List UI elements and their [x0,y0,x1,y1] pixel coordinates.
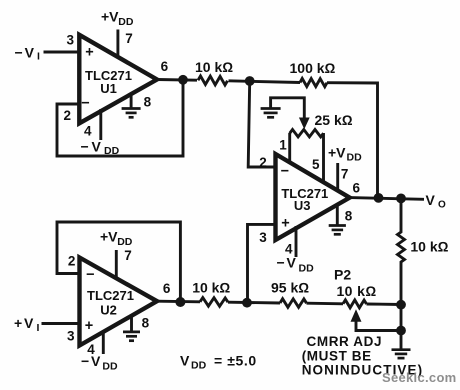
wire R4 to node B [228,301,280,305]
text VDD = +-5.0 [180,353,257,372]
svg-text:−V: −V [81,353,102,369]
svg-text:3: 3 [67,329,75,344]
svg-text:1: 1 [279,138,287,153]
wire U1 pin 4 [99,109,102,140]
-VDD label U2 [81,353,118,373]
svg-text:6: 6 [352,181,360,196]
potentiometer P2 10 k-ohm [334,267,377,308]
wire pot right end to U3 pin 5 [322,133,325,184]
wire pot left end to U3 pin 1 [288,133,291,163]
svg-text:I: I [37,51,40,63]
text CMRR ADJ note [302,334,424,378]
svg-text:−: − [81,96,89,112]
svg-text:+V: +V [14,315,35,331]
ground U2 pin 8 [123,316,140,341]
svg-text:DD: DD [347,152,363,164]
node wiper junction [396,326,406,336]
svg-text:O: O [438,200,446,211]
wire +VI to U2 pin 3 [42,322,81,325]
svg-text:V: V [92,139,102,155]
input -VI label [15,45,41,63]
svg-text:10 kΩ: 10 kΩ [195,59,233,75]
potentiometer 25 k-ohm [290,112,353,137]
svg-text:−: − [86,267,94,283]
svg-text:10 kΩ: 10 kΩ [337,283,377,299]
resistor 10 k-ohm R3 vertical [398,198,449,304]
svg-text:−V: −V [277,255,298,271]
wire U3 pin 7 [336,163,339,192]
svg-text:U1: U1 [100,81,117,96]
svg-text:DD: DD [118,16,134,28]
resistor 95 k-ohm R5 [271,280,309,308]
svg-text:3: 3 [66,33,74,48]
svg-text:7: 7 [125,31,133,46]
wire P2 wiper down and right [356,320,401,331]
wire U2 pin 4 [102,332,105,354]
svg-text:Seekic.com: Seekic.com [382,370,457,385]
node U1 output junction [178,75,188,85]
svg-text:DD: DD [191,360,207,372]
svg-text:CMRR ADJ: CMRR ADJ [307,334,383,349]
resistor 10 k-ohm R1 [195,59,233,85]
wire U1 pin 7 [116,30,119,59]
svg-text:2: 2 [259,155,267,170]
svg-text:+V: +V [328,145,346,161]
svg-text:2: 2 [63,108,71,123]
-VDD label U1 [81,139,120,158]
wire U2 pin 7 [115,250,118,280]
svg-text:DD: DD [117,236,133,248]
svg-text:8: 8 [345,209,353,224]
svg-text:I: I [37,322,40,334]
input +VI label [14,315,40,334]
resistor 10 k-ohm R4 [192,279,230,306]
+VDD label U3 [328,145,362,164]
svg-text:DD: DD [299,263,315,275]
op-amp U3 [276,154,350,240]
node U3 output junction [374,193,384,203]
svg-text:+: + [85,318,93,334]
-VDD label U3 [277,255,315,275]
wire P2 right end [367,303,402,306]
svg-text:+V: +V [101,9,119,25]
svg-text:−: − [81,139,89,155]
svg-text:7: 7 [341,167,349,182]
svg-text:+: + [281,216,289,232]
svg-text:(MUST BE: (MUST BE [302,349,372,364]
svg-text:5: 5 [312,157,320,172]
svg-text:4: 4 [84,124,92,139]
svg-text:100 kΩ: 100 kΩ [290,60,336,76]
ground U1 pin 8 [122,93,141,117]
svg-text:95 kΩ: 95 kΩ [271,280,309,296]
svg-text:7: 7 [124,248,132,263]
node U2 output junction [175,297,185,307]
wiper arrow P2 [351,311,360,322]
wire -VI to U1 pin 3 [44,51,81,54]
svg-text:6: 6 [161,59,169,74]
svg-text:10 kΩ: 10 kΩ [192,279,230,295]
ground bottom right [392,350,411,358]
svg-text:6: 6 [163,281,171,296]
node P2 right junction [396,300,406,310]
ground U3 pin 8 [329,205,346,234]
svg-text:+V: +V [100,229,118,245]
op-amp U2 [80,258,158,346]
wire down to ground [400,305,403,350]
svg-text:DD: DD [102,361,118,373]
svg-text:+: + [85,44,93,60]
wire R1 to node A [229,81,301,83]
wire U3 output pin 6 [350,198,424,200]
wire U2 output pin 6 [157,300,200,303]
svg-text:2: 2 [68,254,76,269]
wire R5 to P2 [307,302,344,305]
wire U2 feedback to pin 2 [57,222,180,302]
wire U1 feedback to pin 2 [57,80,183,156]
node A junction [245,76,255,86]
ground 25k pot wiper [261,98,305,119]
+VDD label U2 [100,229,133,249]
svg-text:10 kΩ: 10 kΩ [410,239,448,255]
wire node A to U3 pin 2 [248,81,276,167]
svg-text:V: V [426,192,436,208]
svg-text:3: 3 [259,230,267,245]
op-amp U1 [79,35,157,124]
wire U1 output pin 6 [157,78,197,82]
svg-text:= ±5.0: = ±5.0 [214,353,257,369]
svg-text:−: − [281,164,289,180]
wiper arrow 25k pot [300,118,309,128]
svg-text:−V: −V [15,45,37,61]
+VDD label U1 [101,9,134,29]
wire node B to U3 pin 3 [248,224,277,302]
node B junction [242,298,252,308]
svg-text:U2: U2 [100,303,117,318]
svg-text:8: 8 [144,95,152,110]
svg-text:P2: P2 [334,267,351,283]
node VO branch junction [396,194,406,204]
wire U3 pin 4 [295,226,298,257]
svg-text:8: 8 [142,316,150,331]
svg-text:V: V [180,353,190,369]
resistor 100 k-ohm R2 [290,60,336,87]
svg-text:U3: U3 [294,198,311,213]
output VO label [426,192,447,211]
wire R2 down to U3 output node [327,83,378,198]
svg-text:TLC271: TLC271 [87,288,134,303]
svg-text:25 kΩ: 25 kΩ [315,112,353,128]
